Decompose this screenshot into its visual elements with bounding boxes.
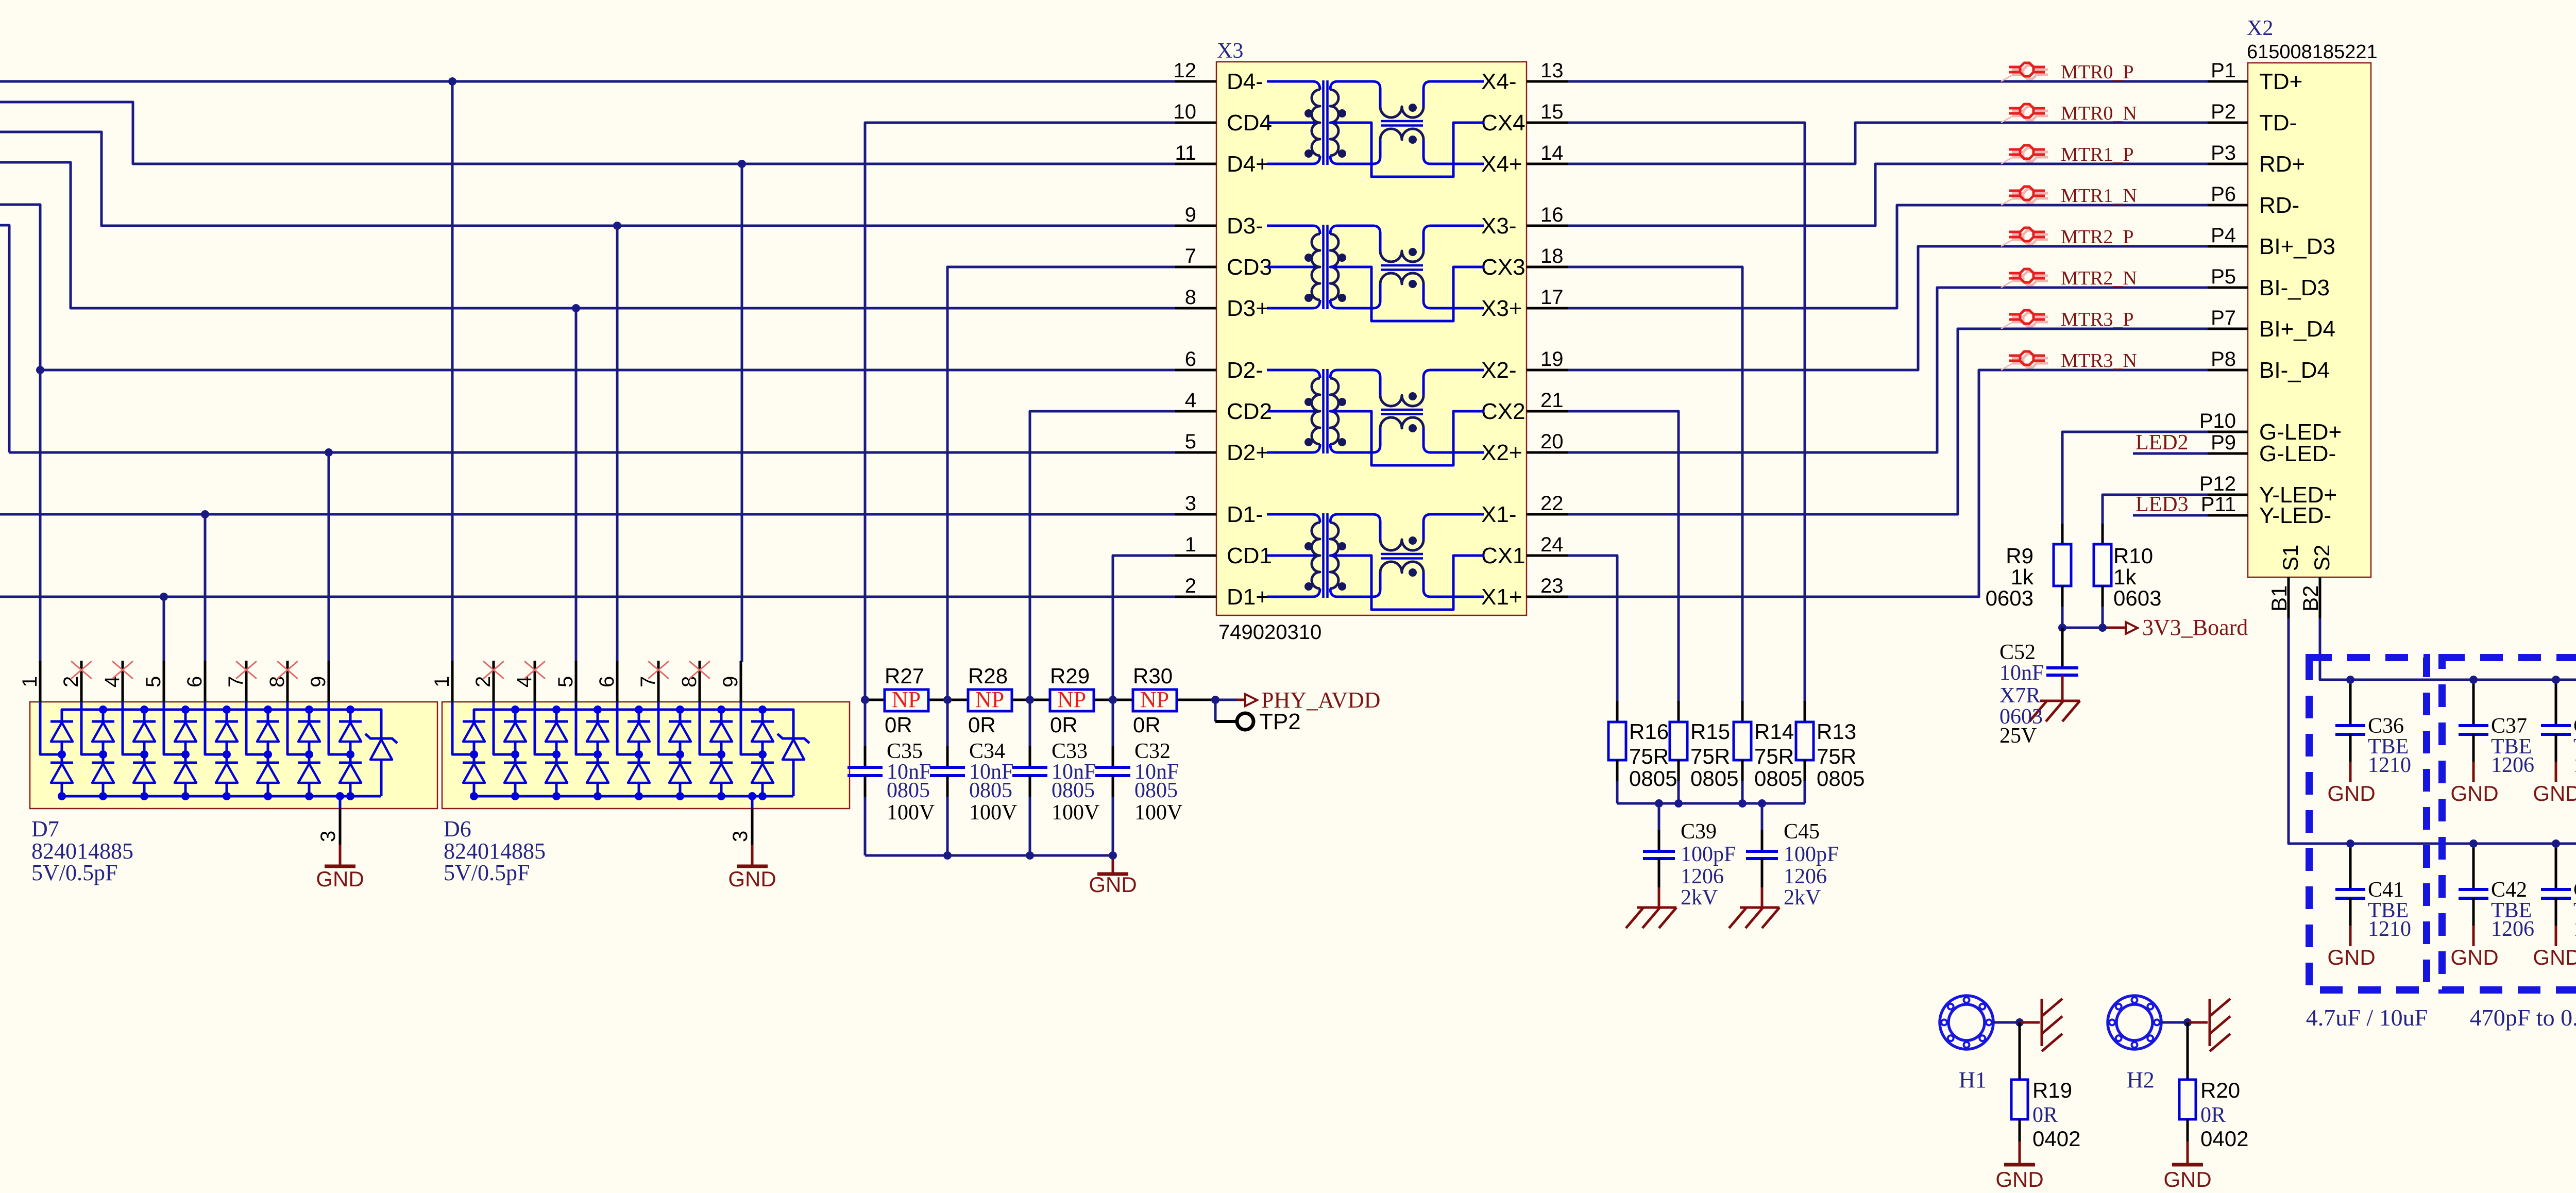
svg-text:100pF: 100pF xyxy=(1681,843,1736,866)
svg-text:6: 6 xyxy=(1185,348,1196,371)
svg-text:2: 2 xyxy=(1185,575,1196,597)
svg-text:BI+_D4: BI+_D4 xyxy=(2259,316,2335,342)
svg-text:1206: 1206 xyxy=(2491,917,2534,941)
svg-text:S1: S1 xyxy=(2278,545,2302,571)
svg-text:GND: GND xyxy=(1089,872,1137,897)
svg-text:0603: 0603 xyxy=(1986,586,2033,610)
svg-text:MTR2_P: MTR2_P xyxy=(2061,226,2133,248)
svg-text:X4+: X4+ xyxy=(1481,152,1522,177)
svg-text:5V/0.5pF: 5V/0.5pF xyxy=(31,860,117,885)
svg-text:0R: 0R xyxy=(1050,713,1078,737)
svg-text:9: 9 xyxy=(1185,204,1196,226)
svg-text:GND: GND xyxy=(2163,1167,2211,1191)
svg-text:17: 17 xyxy=(1540,286,1564,309)
svg-text:1206: 1206 xyxy=(2573,753,2576,777)
svg-text:1: 1 xyxy=(1185,533,1196,556)
svg-text:NP: NP xyxy=(1140,687,1169,712)
svg-text:P4: P4 xyxy=(2211,224,2236,247)
svg-text:R14: R14 xyxy=(1754,719,1794,744)
svg-text:P8: P8 xyxy=(2211,348,2236,371)
svg-text:B1: B1 xyxy=(2267,585,2291,612)
svg-text:0R: 0R xyxy=(885,713,912,737)
svg-text:Y-LED-: Y-LED- xyxy=(2259,503,2331,528)
svg-text:NP: NP xyxy=(975,687,1004,712)
svg-text:D2-: D2- xyxy=(1227,358,1263,383)
svg-text:9: 9 xyxy=(719,676,742,687)
svg-text:MTR0_N: MTR0_N xyxy=(2061,103,2137,124)
svg-text:1206: 1206 xyxy=(1681,865,1724,888)
svg-text:7: 7 xyxy=(1185,245,1196,267)
svg-text:MTR3_P: MTR3_P xyxy=(2061,309,2133,330)
svg-text:615008185221: 615008185221 xyxy=(2247,41,2378,63)
svg-text:MTR1_N: MTR1_N xyxy=(2061,185,2137,207)
svg-text:GND: GND xyxy=(316,867,364,891)
svg-text:12: 12 xyxy=(1174,59,1197,82)
svg-text:100V: 100V xyxy=(969,801,1017,825)
svg-text:H1: H1 xyxy=(1959,1067,1987,1093)
svg-text:GND: GND xyxy=(2533,781,2576,805)
svg-text:NP: NP xyxy=(892,687,921,712)
svg-text:CD4: CD4 xyxy=(1227,110,1272,136)
svg-text:P5: P5 xyxy=(2211,265,2236,288)
svg-text:0603: 0603 xyxy=(2113,586,2161,610)
svg-text:0805: 0805 xyxy=(969,779,1012,802)
svg-text:1k: 1k xyxy=(2113,565,2137,589)
svg-text:CX2: CX2 xyxy=(1481,399,1526,424)
svg-text:20: 20 xyxy=(1540,430,1564,453)
svg-text:CX3: CX3 xyxy=(1481,255,1526,280)
svg-text:3V3_Board: 3V3_Board xyxy=(2142,615,2248,640)
svg-text:MTR3_N: MTR3_N xyxy=(2061,350,2137,372)
svg-text:R16: R16 xyxy=(1629,719,1669,744)
svg-text:D2+: D2+ xyxy=(1227,440,1269,465)
svg-text:D4-: D4- xyxy=(1227,69,1263,94)
svg-text:X3-: X3- xyxy=(1481,213,1516,239)
svg-text:RD+: RD+ xyxy=(2259,152,2305,177)
svg-text:D6: D6 xyxy=(444,816,471,842)
svg-text:100pF: 100pF xyxy=(1784,843,1839,866)
svg-text:GND: GND xyxy=(2450,945,2498,969)
svg-text:R15: R15 xyxy=(1690,719,1730,744)
svg-text:23: 23 xyxy=(1540,575,1564,597)
svg-text:21: 21 xyxy=(1540,389,1564,412)
svg-text:BI+_D3: BI+_D3 xyxy=(2259,234,2335,259)
svg-text:R10: R10 xyxy=(2113,544,2153,568)
svg-text:P6: P6 xyxy=(2211,183,2236,206)
svg-text:2kV: 2kV xyxy=(1784,886,1821,910)
svg-text:0402: 0402 xyxy=(2032,1127,2080,1151)
svg-text:75R: 75R xyxy=(1754,744,1794,768)
svg-text:0805: 0805 xyxy=(1754,766,1802,791)
svg-text:D1-: D1- xyxy=(1227,502,1263,527)
svg-text:R9: R9 xyxy=(2006,544,2033,568)
svg-text:4.7uF / 10uF: 4.7uF / 10uF xyxy=(2306,1004,2428,1031)
svg-text:14: 14 xyxy=(1540,142,1564,164)
svg-text:100V: 100V xyxy=(887,801,935,825)
svg-text:X3+: X3+ xyxy=(1481,296,1522,321)
svg-text:13: 13 xyxy=(1540,59,1564,82)
svg-text:22: 22 xyxy=(1540,492,1564,515)
svg-text:5: 5 xyxy=(142,676,165,687)
svg-text:3: 3 xyxy=(729,831,752,842)
svg-text:MTR0_P: MTR0_P xyxy=(2061,61,2133,83)
svg-text:CX4: CX4 xyxy=(1481,110,1526,136)
svg-text:25V: 25V xyxy=(1999,724,2037,748)
svg-text:5: 5 xyxy=(1185,430,1196,453)
svg-text:D4+: D4+ xyxy=(1227,152,1269,177)
svg-text:GND: GND xyxy=(2450,781,2498,805)
svg-text:TD+: TD+ xyxy=(2259,69,2302,94)
svg-text:P3: P3 xyxy=(2211,142,2236,164)
svg-text:D7: D7 xyxy=(31,816,59,842)
svg-text:0R: 0R xyxy=(2032,1103,2058,1127)
svg-text:G-LED-: G-LED- xyxy=(2259,441,2336,466)
svg-text:1: 1 xyxy=(431,676,453,687)
svg-text:LED2: LED2 xyxy=(2136,431,2189,455)
svg-text:CD2: CD2 xyxy=(1227,399,1272,424)
svg-text:NP: NP xyxy=(1057,687,1086,712)
svg-text:D1+: D1+ xyxy=(1227,584,1269,610)
svg-text:3: 3 xyxy=(317,831,340,842)
svg-text:R27: R27 xyxy=(885,664,924,688)
svg-text:C39: C39 xyxy=(1681,820,1717,844)
svg-text:0402: 0402 xyxy=(2200,1127,2248,1151)
svg-text:6: 6 xyxy=(183,676,206,687)
svg-text:H2: H2 xyxy=(2127,1067,2155,1093)
svg-text:P1: P1 xyxy=(2211,59,2236,82)
svg-text:CD1: CD1 xyxy=(1227,543,1272,568)
svg-text:X1-: X1- xyxy=(1481,502,1516,527)
svg-text:C45: C45 xyxy=(1784,820,1820,844)
svg-text:P9: P9 xyxy=(2211,431,2236,454)
svg-text:GND: GND xyxy=(728,867,776,891)
svg-text:R30: R30 xyxy=(1133,664,1173,688)
svg-text:D3-: D3- xyxy=(1227,213,1263,239)
svg-text:X2-: X2- xyxy=(1481,358,1516,383)
svg-text:75R: 75R xyxy=(1817,744,1856,768)
svg-text:1206: 1206 xyxy=(1784,865,1827,888)
svg-text:X2+: X2+ xyxy=(1481,440,1522,465)
svg-text:TD-: TD- xyxy=(2259,110,2297,136)
svg-text:11: 11 xyxy=(1175,142,1196,164)
svg-text:3: 3 xyxy=(1185,492,1196,515)
svg-text:10: 10 xyxy=(1174,100,1197,123)
svg-text:P7: P7 xyxy=(2211,307,2236,329)
svg-text:X3: X3 xyxy=(1217,39,1243,63)
svg-text:0R: 0R xyxy=(1133,713,1161,737)
svg-text:8: 8 xyxy=(1185,286,1196,309)
svg-text:RD-: RD- xyxy=(2259,193,2299,218)
svg-text:BI-_D4: BI-_D4 xyxy=(2259,358,2330,383)
svg-text:CX1: CX1 xyxy=(1481,543,1526,568)
svg-text:GND: GND xyxy=(2327,781,2375,805)
svg-text:GND: GND xyxy=(2533,945,2576,969)
svg-text:R13: R13 xyxy=(1817,719,1856,744)
svg-text:1206: 1206 xyxy=(2573,917,2576,941)
svg-text:75R: 75R xyxy=(1629,744,1669,768)
svg-text:BI-_D3: BI-_D3 xyxy=(2259,275,2330,300)
svg-text:1210: 1210 xyxy=(2368,753,2411,777)
svg-text:0805: 0805 xyxy=(1690,766,1738,791)
svg-text:R20: R20 xyxy=(2200,1078,2240,1102)
svg-text:MTR2_N: MTR2_N xyxy=(2061,267,2137,289)
svg-text:P11: P11 xyxy=(2201,493,2236,516)
svg-text:1210: 1210 xyxy=(2368,917,2411,941)
svg-text:75R: 75R xyxy=(1690,744,1730,768)
svg-text:19: 19 xyxy=(1540,348,1564,371)
svg-text:TP2: TP2 xyxy=(1259,709,1301,734)
svg-text:5: 5 xyxy=(554,676,577,687)
svg-text:100V: 100V xyxy=(1052,801,1099,825)
svg-text:P10: P10 xyxy=(2199,410,2236,432)
svg-text:B2: B2 xyxy=(2298,585,2323,612)
svg-text:0R: 0R xyxy=(2200,1103,2226,1127)
svg-text:0805: 0805 xyxy=(1629,766,1677,791)
svg-text:24: 24 xyxy=(1540,533,1564,556)
svg-text:470pF to 0.1uF: 470pF to 0.1uF xyxy=(2470,1004,2576,1031)
svg-text:1206: 1206 xyxy=(2491,753,2534,777)
svg-text:S2: S2 xyxy=(2310,545,2334,571)
svg-text:X2: X2 xyxy=(2247,16,2273,40)
svg-text:0R: 0R xyxy=(968,713,996,737)
svg-text:X1+: X1+ xyxy=(1481,584,1522,610)
svg-text:R28: R28 xyxy=(968,664,1008,688)
svg-text:R29: R29 xyxy=(1050,664,1090,688)
svg-text:10nF: 10nF xyxy=(1999,661,2044,685)
svg-text:P2: P2 xyxy=(2211,100,2236,123)
svg-text:GND: GND xyxy=(2327,945,2375,969)
svg-text:X7R: X7R xyxy=(1999,684,2040,708)
svg-text:0805: 0805 xyxy=(1817,766,1865,791)
svg-text:CD3: CD3 xyxy=(1227,255,1272,280)
svg-text:0805: 0805 xyxy=(887,779,930,802)
svg-text:R19: R19 xyxy=(2032,1078,2072,1102)
svg-text:LED3: LED3 xyxy=(2136,493,2189,516)
svg-text:4: 4 xyxy=(1185,389,1196,412)
svg-text:16: 16 xyxy=(1540,204,1564,226)
svg-text:18: 18 xyxy=(1540,245,1564,267)
svg-text:6: 6 xyxy=(596,676,618,687)
svg-text:9: 9 xyxy=(307,676,330,687)
svg-text:100V: 100V xyxy=(1134,801,1182,825)
svg-text:0805: 0805 xyxy=(1134,779,1178,802)
svg-text:X4-: X4- xyxy=(1481,69,1516,94)
svg-text:MTR1_P: MTR1_P xyxy=(2061,144,2133,165)
svg-text:0805: 0805 xyxy=(1052,779,1095,802)
svg-text:GND: GND xyxy=(1995,1167,2043,1191)
svg-text:1: 1 xyxy=(19,676,41,687)
svg-text:D3+: D3+ xyxy=(1227,296,1269,321)
svg-text:749020310: 749020310 xyxy=(1218,621,1321,644)
svg-text:P12: P12 xyxy=(2199,473,2236,495)
svg-text:2kV: 2kV xyxy=(1681,886,1718,910)
svg-text:1k: 1k xyxy=(2011,565,2034,589)
svg-text:15: 15 xyxy=(1540,100,1564,123)
svg-text:5V/0.5pF: 5V/0.5pF xyxy=(444,860,530,885)
